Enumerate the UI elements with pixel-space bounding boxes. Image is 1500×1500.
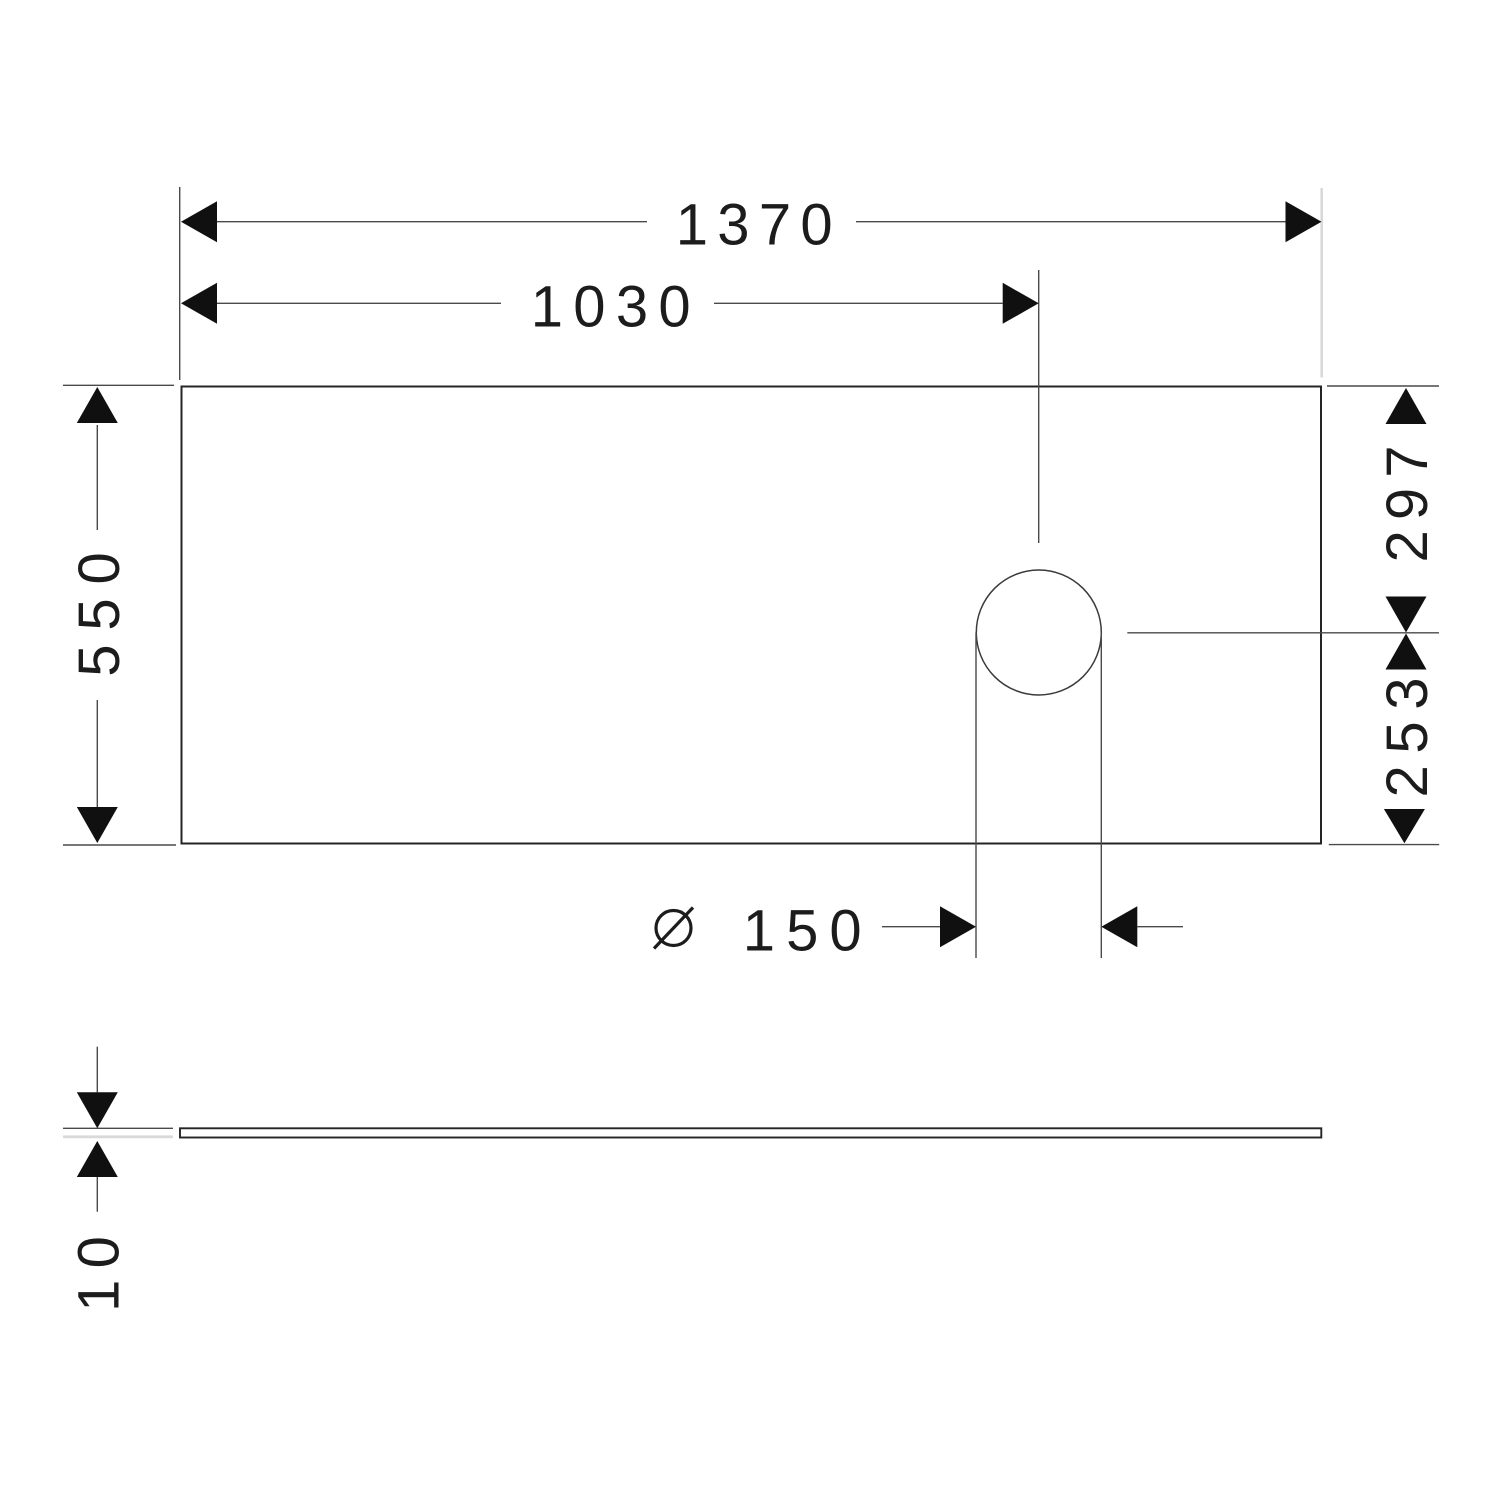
svg-text:1030: 1030 — [531, 275, 702, 340]
svg-text:253: 253 — [1375, 667, 1440, 798]
svg-text:150: 150 — [743, 899, 873, 964]
svg-text:297: 297 — [1375, 435, 1440, 563]
svg-text:10: 10 — [67, 1225, 132, 1312]
svg-text:550: 550 — [67, 541, 132, 677]
svg-text:1370: 1370 — [676, 193, 844, 258]
